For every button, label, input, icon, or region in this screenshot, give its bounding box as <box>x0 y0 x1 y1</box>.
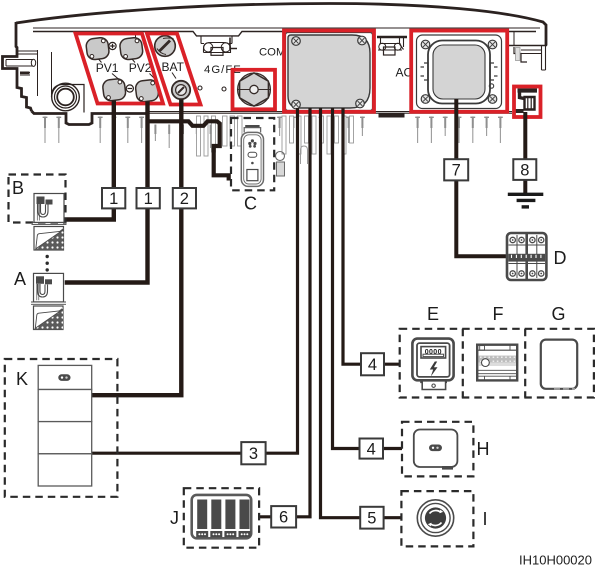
central mount ears <box>204 43 231 53</box>
svg-text:BAT: BAT <box>162 60 185 74</box>
red highlight PV parallelogram <box>76 34 164 104</box>
battery stack K <box>38 365 91 486</box>
COM cover gray lid <box>288 35 370 108</box>
svg-text:B: B <box>12 178 24 198</box>
svg-text:PV2: PV2 <box>129 61 152 75</box>
AC cover mid ring <box>428 41 490 104</box>
PV2 - connector <box>135 79 159 103</box>
ellipsis dots between B and A <box>46 255 49 272</box>
gland behind C box <box>276 152 285 161</box>
AC side clip left <box>421 63 429 80</box>
PV2 + connector <box>119 37 143 61</box>
top face inner line 1 <box>33 27 540 29</box>
device G <box>541 340 577 389</box>
wire COM3 to label 5 and I <box>321 108 402 518</box>
svg-text:4: 4 <box>368 356 377 374</box>
battery button pill <box>58 374 70 381</box>
inverter bottom edge with notch <box>32 111 148 125</box>
svg-text:PV1: PV1 <box>96 61 119 75</box>
label box 4 <box>360 439 384 459</box>
PV1 - connector <box>102 78 126 102</box>
COM screw BR <box>356 99 365 108</box>
label box 7 <box>444 159 468 180</box>
label box 6 <box>271 506 296 527</box>
gray bars behind 4G area <box>197 116 354 164</box>
label box 1 <box>102 188 125 208</box>
PV panel icon B <box>34 227 64 251</box>
plus symbol <box>109 42 116 49</box>
dashed box I <box>401 491 473 546</box>
wire COM2 to label 6 and J <box>259 108 310 517</box>
right bracket hook <box>514 47 527 62</box>
load switch panel J <box>192 495 252 538</box>
COM cover outer frame <box>286 33 373 111</box>
central mount ear circles <box>204 43 213 52</box>
BAT top connector <box>155 36 176 57</box>
svg-text:F: F <box>493 304 504 324</box>
gland circle mid <box>55 86 77 108</box>
AC screw TR <box>488 40 497 49</box>
svg-text:1: 1 <box>144 190 153 208</box>
svg-text:G: G <box>552 304 566 324</box>
svg-text:COM: COM <box>259 47 285 59</box>
breaker D <box>507 233 546 280</box>
ground symbol <box>508 194 544 207</box>
dashed box K <box>5 359 118 497</box>
COM screw TL <box>292 37 301 46</box>
svg-text:0000: 0000 <box>425 349 442 356</box>
PV1 leader lines <box>99 59 120 80</box>
red highlight 4G antenna gland <box>233 70 276 110</box>
panel seam line left <box>135 32 137 48</box>
AC cover gray lid <box>433 45 485 99</box>
BAT bottom connector <box>172 81 190 99</box>
dashed box EFG <box>400 329 594 398</box>
svg-text:D: D <box>554 248 567 268</box>
left tab inner lines <box>6 60 33 67</box>
svg-text:E: E <box>427 304 439 324</box>
ground clamp <box>515 91 538 112</box>
label box 8 <box>513 159 536 180</box>
label box 3 <box>241 442 265 464</box>
svg-text:C: C <box>244 194 257 214</box>
heat sink fins <box>43 117 503 149</box>
thin bottom edge right part <box>147 112 512 114</box>
wire COM5 to label 4 and E <box>343 108 400 364</box>
svg-text:I: I <box>483 509 488 529</box>
wire COM4 to label 4 and H <box>333 108 403 449</box>
left bracket dark bar <box>20 72 30 75</box>
wire PV2 to A <box>65 102 148 283</box>
svg-text:J: J <box>170 508 179 528</box>
4G dongle C <box>241 126 263 186</box>
PV connector pair icon B <box>32 194 67 225</box>
dark bar under small component <box>379 114 405 118</box>
left bracket detail lines <box>17 50 52 96</box>
AC cover outer frame <box>417 35 502 109</box>
svg-text:8: 8 <box>520 161 529 179</box>
emergency stop button I <box>417 500 453 536</box>
red highlight AC <box>411 31 507 112</box>
wire PV1 to B <box>64 101 114 220</box>
power meter E <box>412 339 453 390</box>
svg-text:H: H <box>477 439 490 459</box>
PV connector pair icon A <box>31 273 66 304</box>
small bracket left of hex gland <box>230 38 237 49</box>
PV panel icon A <box>34 306 64 330</box>
label box 2 <box>173 188 196 208</box>
wire BAT to battery K <box>92 100 181 396</box>
gland housing left <box>52 85 85 113</box>
dashed box C <box>231 118 274 190</box>
right bracket ledge <box>508 45 547 47</box>
heat sink bar and antenna cable from 4G/FE <box>147 121 229 180</box>
wire ground clamp to label 8 and earth <box>523 112 527 193</box>
inverter body outline <box>16 4 546 46</box>
red highlight ground clamp <box>514 87 541 118</box>
PV2 leader lines <box>132 59 156 80</box>
label box 5 <box>360 507 383 529</box>
wire COM1 to label 3 and battery <box>92 108 298 453</box>
AC small screw right lower <box>489 84 493 88</box>
label box 1 <box>137 188 160 208</box>
central mount bracket <box>201 36 232 44</box>
gland circle inner <box>57 89 74 106</box>
screw hole near BAT <box>198 86 202 90</box>
AC screw BR <box>488 95 497 104</box>
COM screw TR <box>358 36 367 45</box>
top face inner line 2 <box>33 32 536 36</box>
hex gland nut <box>238 73 271 106</box>
small component between COM and AC top <box>377 37 407 55</box>
svg-text:K: K <box>16 369 28 389</box>
central mount inner rect <box>211 48 223 56</box>
svg-text:6: 6 <box>279 509 288 527</box>
gland circle outer <box>52 83 80 111</box>
BAT leader line <box>172 73 176 79</box>
svg-text:7: 7 <box>452 162 461 180</box>
svg-text:IH10H00020: IH10H00020 <box>519 553 592 568</box>
wire AC to label 7 and breaker D <box>456 99 507 256</box>
dashed box J <box>184 488 259 548</box>
red highlight COM <box>284 31 374 112</box>
minus symbol <box>126 85 133 92</box>
left tab end cap <box>31 59 35 66</box>
dashed box H <box>402 422 473 477</box>
inverter left edge and bracket hook <box>3 22 32 111</box>
svg-text:4: 4 <box>367 440 376 458</box>
AC screw TL <box>421 40 430 49</box>
svg-text:2: 2 <box>180 190 189 208</box>
svg-text:1: 1 <box>109 190 118 208</box>
dashed box B <box>9 175 66 223</box>
svg-text:5: 5 <box>367 510 376 528</box>
red highlight BAT parallelogram <box>147 34 201 105</box>
svg-text:A: A <box>14 269 26 289</box>
screw hole left of hex gland <box>222 87 226 91</box>
label box 4 <box>361 353 384 375</box>
gray rect below gland behind C <box>277 162 285 176</box>
din meter F <box>477 345 517 381</box>
AC screw BL <box>421 95 430 104</box>
PV1 + connector <box>85 37 109 61</box>
inverter icon H <box>414 430 458 470</box>
AC side clip right <box>490 63 498 80</box>
svg-text:3: 3 <box>249 445 258 463</box>
COM screw BL <box>292 100 301 109</box>
right edge seam line <box>513 32 515 47</box>
